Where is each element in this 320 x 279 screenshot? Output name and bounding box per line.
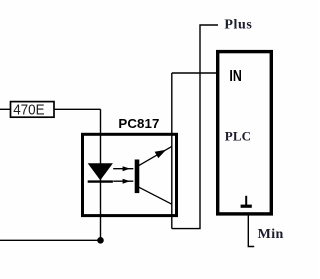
svg-text:IN: IN bbox=[229, 68, 241, 85]
svg-text:PC817: PC817 bbox=[118, 116, 159, 131]
svg-text:Plus: Plus bbox=[224, 18, 252, 33]
svg-text:Min: Min bbox=[258, 227, 284, 242]
svg-text:470E: 470E bbox=[13, 102, 45, 119]
svg-text:PLC: PLC bbox=[225, 128, 251, 143]
